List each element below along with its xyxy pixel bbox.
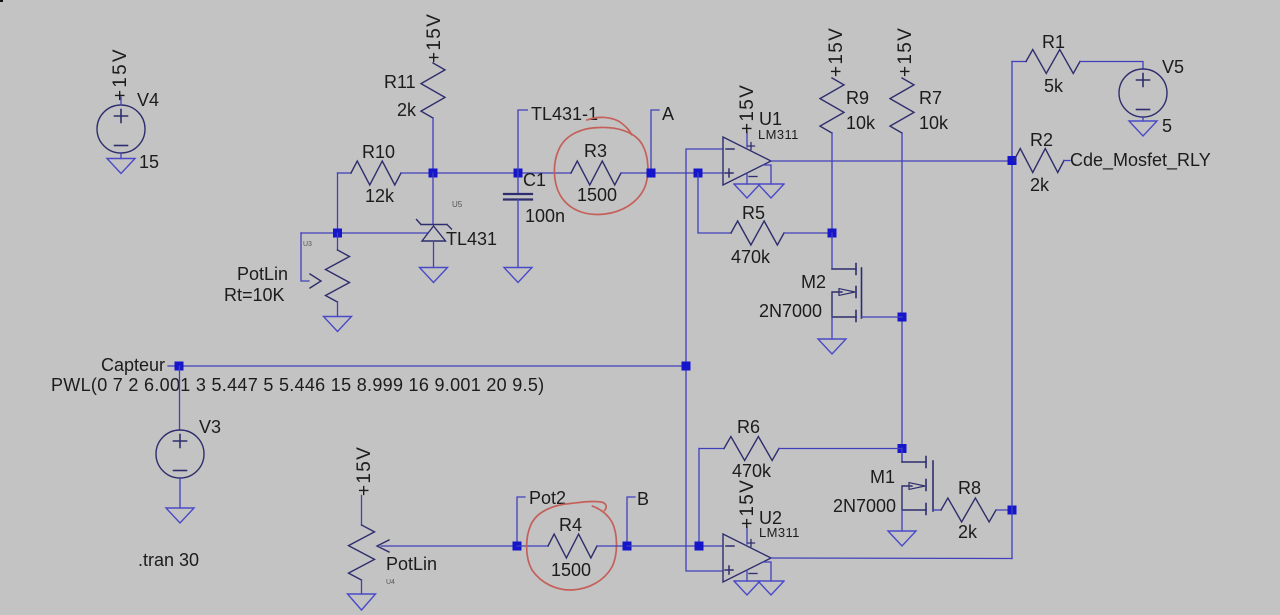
U1 V- pin — [746, 174, 748, 185]
svg-text:R5: R5 — [742, 203, 765, 223]
U2 ground bar and triangles — [734, 581, 784, 595]
resistor R4 — [548, 534, 597, 558]
wire R2 right tick — [1064, 160, 1070, 162]
junction R6 at U2 minus node — [695, 542, 704, 551]
wire M1 source down — [901, 510, 903, 531]
U2 balance pin step — [763, 562, 771, 581]
ground below pot U3 — [324, 317, 352, 332]
wire R10 to R3 — [401, 172, 571, 174]
red annotation circle around R3 — [554, 127, 648, 214]
resistor R3 — [571, 161, 621, 185]
svg-text:R4: R4 — [559, 515, 582, 535]
wire V4 bottom pin — [120, 153, 122, 159]
wire V5 bottom — [1142, 117, 1144, 121]
svg-text:+15V: +15V — [737, 479, 758, 529]
svg-text:R9: R9 — [846, 88, 869, 108]
junction Capteur at long vertical — [682, 362, 691, 371]
wire R1 to V5 — [1080, 62, 1143, 70]
junction U1 feedback node — [694, 169, 703, 178]
svg-text:2k: 2k — [1030, 175, 1050, 195]
wire node B to U2 minus — [627, 545, 723, 547]
svg-text:Cde_Mosfet_RLY: Cde_Mosfet_RLY — [1070, 150, 1211, 171]
node A stub — [651, 110, 659, 173]
svg-text:R8: R8 — [958, 478, 981, 498]
junction output rail at R2 — [1008, 156, 1017, 165]
svg-text:2k: 2k — [397, 100, 417, 120]
svg-text:A: A — [662, 104, 674, 124]
wire R7 bottom long vertical — [901, 133, 903, 462]
svg-text:+15V: +15V — [110, 47, 131, 101]
junction M2 gate node — [898, 313, 907, 322]
wire R9 bottom to M2 drain node — [831, 133, 833, 233]
ground below M1 — [888, 531, 916, 546]
svg-text:2N7000: 2N7000 — [833, 496, 896, 516]
wire C1 top lead — [517, 173, 519, 194]
svg-text:C1: C1 — [523, 170, 546, 190]
junction node A — [647, 169, 656, 178]
svg-text:Rt=10K: Rt=10K — [224, 285, 285, 305]
svg-text:M2: M2 — [801, 272, 826, 292]
svg-text:U5: U5 — [452, 200, 463, 209]
transistor M2 2N7000 — [832, 269, 856, 317]
wire V4 top pin — [120, 97, 122, 105]
wire R3 to U1 plus input — [621, 172, 723, 174]
pot U4 wiper arrow — [377, 540, 389, 552]
ground below V3 — [166, 508, 194, 523]
net flag Capteur tick — [168, 365, 179, 367]
net flag B stub — [627, 497, 635, 546]
svg-text:10k: 10k — [919, 113, 949, 133]
svg-text:2N7000: 2N7000 — [759, 301, 822, 321]
red annotation circle around R4 — [527, 501, 617, 590]
svg-text:U1: U1 — [759, 109, 782, 129]
wire R1 left lead — [1012, 61, 1026, 63]
svg-text:TL431-1: TL431-1 — [531, 104, 598, 124]
svg-text:PotLin: PotLin — [386, 554, 437, 574]
transistor M1 2N7000 — [902, 462, 926, 510]
wire pot U3 top lead — [337, 233, 339, 250]
svg-text:+15V: +15V — [895, 27, 916, 77]
wire V3 bottom — [179, 478, 181, 508]
svg-text:R6: R6 — [737, 417, 760, 437]
wire wiper feed for PotLin U3 — [301, 233, 309, 281]
wire TL431 cathode from main node — [432, 173, 434, 224]
wire M2 gate lead — [862, 316, 903, 318]
junction R9/R5/M2 node — [828, 229, 837, 238]
svg-text:1500: 1500 — [577, 185, 617, 205]
wire pot U4 bottom — [361, 580, 363, 594]
svg-text:100n: 100n — [525, 206, 565, 226]
svg-text:.tran 30: .tran 30 — [138, 550, 199, 570]
PotLin U3 wiper arrow — [310, 274, 321, 288]
svg-text:M1: M1 — [870, 467, 895, 487]
wire R6 left lead down to U2 minus node — [698, 449, 700, 547]
svg-text:R11: R11 — [384, 72, 416, 92]
ground below C1 — [504, 268, 532, 283]
svg-text:R1: R1 — [1042, 32, 1065, 52]
wire R10 left lead down to TL431 ref node — [337, 173, 339, 233]
resistor R2 — [1014, 149, 1064, 173]
wire main node left segment (R10 area) — [338, 172, 352, 174]
ground below V4 — [107, 159, 135, 174]
svg-text:B: B — [637, 489, 649, 509]
svg-text:1500: 1500 — [551, 560, 591, 580]
svg-text:10k: 10k — [846, 113, 876, 133]
svg-text:+15V: +15V — [424, 13, 445, 63]
resistor R8 — [941, 498, 996, 522]
svg-text:V4: V4 — [137, 90, 159, 110]
wire Pot2 node to R4 — [517, 545, 548, 547]
resistor R1 — [1026, 50, 1080, 74]
svg-text:+15V: +15V — [354, 446, 375, 496]
wire U1 output — [771, 160, 1012, 162]
potentiometer U4 body — [349, 525, 375, 580]
svg-text:+15V: +15V — [737, 84, 758, 134]
junction Pot2 node — [513, 542, 522, 551]
resistor R10 — [351, 161, 401, 185]
svg-text:R10: R10 — [362, 142, 395, 162]
TL431 U5 symbol — [417, 220, 452, 230]
wire pot U4 top — [361, 496, 363, 526]
capacitor C1 — [504, 193, 532, 195]
svg-text:470k: 470k — [732, 461, 772, 481]
wire R6 left lead — [699, 448, 724, 450]
wire R11 bottom to main node — [432, 118, 434, 173]
wire M2 drain feed — [831, 233, 833, 269]
junction ref node — [333, 229, 342, 238]
U2 V- pin — [746, 571, 748, 582]
ground below V5 — [1129, 121, 1157, 136]
net flag Pot2 stub — [517, 497, 525, 546]
junction at C1 top — [514, 169, 523, 178]
svg-text:TL431: TL431 — [446, 229, 497, 249]
screen corner artifact — [0, 0, 3, 2]
junction M1 drain / R6 node — [898, 444, 907, 453]
resistor R11 — [421, 63, 445, 118]
resistor R5 — [731, 221, 784, 245]
op-amp U2 LM311 triangle — [723, 534, 771, 582]
U1 ground bar and triangles — [734, 184, 784, 198]
junction at R11 bottom — [429, 169, 438, 178]
wire M1 drain feed — [901, 449, 903, 463]
svg-text:R2: R2 — [1030, 130, 1053, 150]
U1 balance pin step — [763, 165, 771, 184]
svg-text:U3: U3 — [303, 241, 312, 248]
wire pot U3 bottom — [337, 302, 339, 317]
svg-text:U4: U4 — [386, 579, 395, 586]
svg-text:5k: 5k — [1044, 76, 1064, 96]
wire ref node horizontal to TL431 — [301, 232, 427, 234]
voltage source V3 — [156, 430, 204, 478]
junction Capteur at V3 — [175, 362, 184, 371]
voltage source V4 — [97, 105, 145, 153]
svg-text:R3: R3 — [584, 141, 607, 161]
wire M1 gate lead — [933, 509, 941, 511]
wire U1 minus input from long vertical — [686, 149, 723, 571]
wire U2 output to rail — [771, 557, 1012, 560]
wire wiper to Pot2 node — [381, 545, 517, 547]
ground below pot U4 — [348, 594, 376, 610]
resistor R9 — [820, 78, 844, 133]
svg-text:5: 5 — [1162, 116, 1172, 136]
op-amp U1 LM311 triangle — [723, 137, 771, 185]
svg-text:R7: R7 — [919, 88, 942, 108]
wire U1 plus node down to R5 — [698, 173, 731, 233]
svg-text:V3: V3 — [199, 417, 221, 437]
ground below TL431 — [420, 268, 448, 283]
potentiometer U3 body — [326, 250, 350, 302]
resistor R7 — [890, 78, 914, 133]
wire M2 source down — [831, 317, 833, 339]
svg-text:+15V: +15V — [826, 27, 847, 77]
svg-text:12k: 12k — [365, 186, 395, 206]
svg-text:470k: 470k — [731, 247, 771, 267]
wire R6 right lead — [779, 448, 902, 450]
ground below M2 — [818, 339, 846, 354]
wire R8 right lead — [996, 509, 1012, 511]
resistor R6 — [724, 437, 779, 461]
junction R8 at output rail — [1008, 506, 1017, 515]
svg-text:LM311: LM311 — [758, 127, 799, 142]
wire Capteur horizontal — [179, 365, 686, 367]
wire R4 to node B — [597, 545, 627, 547]
svg-text:PWL(0 7 2 6.001 3 5.447 5 5.44: PWL(0 7 2 6.001 3 5.447 5 5.446 15 8.999… — [51, 375, 544, 395]
junction node B — [623, 542, 632, 551]
wire TL431 anode down — [433, 241, 435, 268]
svg-text:15: 15 — [139, 152, 159, 172]
svg-text:V5: V5 — [1162, 57, 1184, 77]
svg-text:PotLin: PotLin — [237, 264, 288, 284]
voltage source V5 — [1119, 69, 1167, 117]
net flag TL431-1 stub — [518, 110, 528, 173]
wire C1 bottom lead — [517, 200, 519, 268]
U1 V+ pin — [746, 132, 748, 147]
wire R5 right to R9 node — [784, 232, 832, 234]
wire V3 top — [179, 366, 181, 430]
wire output rail vertical — [1011, 62, 1013, 559]
U2 V+ pin — [746, 527, 748, 544]
svg-text:LM311: LM311 — [759, 525, 800, 540]
svg-text:Capteur: Capteur — [101, 355, 165, 375]
svg-text:2k: 2k — [958, 522, 978, 542]
